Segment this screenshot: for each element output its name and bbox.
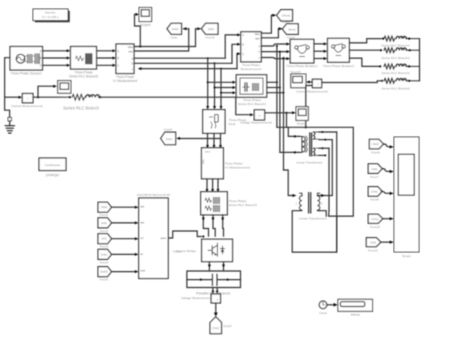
right bus joining RLC rows bbox=[419, 39, 421, 81]
scope1 bbox=[296, 107, 308, 121]
powergui block bbox=[39, 158, 66, 171]
series RLC branch4 row1 bbox=[384, 36, 420, 41]
wires from tags to scope bbox=[381, 144, 391, 242]
wires source to RLC branch5 (3 phases) bbox=[43, 51, 67, 66]
svg-text:Goto2: Goto2 bbox=[283, 20, 291, 24]
svg-text:DISCRETE REGULATOR: DISCRETE REGULATOR bbox=[137, 193, 170, 197]
secondary vertical wires bbox=[331, 140, 333, 196]
three-phase source block1 bbox=[10, 47, 43, 71]
goto tag fault timer bbox=[161, 132, 176, 145]
capacitor bbox=[212, 274, 217, 285]
current measurement1 bbox=[22, 94, 33, 103]
t1 core bbox=[309, 193, 311, 213]
svg-text:display: display bbox=[350, 313, 360, 317]
svg-text:Series RLC Branch1: Series RLC Branch1 bbox=[238, 102, 266, 106]
wires RLC branch3 to bridge bbox=[203, 215, 223, 236]
svg-text:Vabc: Vabc bbox=[128, 46, 134, 49]
wire CM2 right to row4 bbox=[322, 81, 382, 83]
wires breaker1 to breaker2 bbox=[314, 44, 324, 59]
wire Iabc from block3 to tag bbox=[134, 29, 189, 51]
from tag Iabc (top) bbox=[201, 23, 218, 34]
branch up to VI measurement1 bbox=[225, 35, 237, 69]
from tags feeding regulator bbox=[98, 202, 112, 276]
svg-text:ref: ref bbox=[141, 237, 144, 240]
voltage measurement2 bbox=[254, 110, 264, 120]
svg-text:Three-Phase Source1: Three-Phase Source1 bbox=[10, 71, 41, 75]
svg-text:Iabc: Iabc bbox=[255, 38, 260, 41]
wire Iabc block4 to goto tag B bbox=[261, 29, 278, 38]
svg-text:[Vdc]: [Vdc] bbox=[166, 137, 173, 141]
from tags feeding scope bbox=[366, 139, 383, 246]
abc bus wires from block3 to right bbox=[134, 58, 237, 68]
svg-text:From3: From3 bbox=[100, 245, 109, 249]
wire voltage measurement to Vdc goto bbox=[215, 303, 217, 313]
wire fault area to goto tag bbox=[180, 138, 221, 140]
svg-text:C: C bbox=[40, 64, 42, 67]
wire Vabc bus to scope bbox=[135, 14, 141, 46]
svg-text:Voltage Measurement2: Voltage Measurement2 bbox=[240, 121, 272, 125]
ground bbox=[5, 118, 14, 134]
svg-text:[Vinv]: [Vinv] bbox=[372, 217, 379, 221]
three-phase series RLC branch5 block2 bbox=[71, 47, 97, 70]
svg-text:Series RLC Branch2: Series RLC Branch2 bbox=[381, 56, 409, 60]
svg-text:From10: From10 bbox=[370, 225, 380, 229]
svg-text:Vabc: Vabc bbox=[255, 33, 261, 36]
annotation banner Discrete Ts bbox=[33, 9, 70, 22]
wire regulator pulses to bridge bbox=[168, 231, 201, 238]
svg-text:Continuous: Continuous bbox=[45, 163, 61, 167]
top loop wire bbox=[288, 127, 353, 216]
svg-text:Voltage Measurement: Voltage Measurement bbox=[181, 296, 211, 300]
t1 right coil bbox=[317, 193, 319, 211]
voltage measurement (dc) bbox=[211, 294, 220, 303]
svg-text:From4: From4 bbox=[100, 260, 109, 264]
three-phase series RLC branch1 (double border) bbox=[236, 75, 267, 97]
three-phase V-I measurement block3 bbox=[116, 44, 134, 74]
goto tag B bbox=[282, 24, 298, 35]
wire CM1 output to series RLC branch bbox=[33, 96, 70, 98]
three-phase breaker2 bbox=[328, 38, 350, 62]
wire left rail to ground bbox=[5, 97, 10, 119]
display block (to workspace) bbox=[338, 299, 373, 311]
series RLC branch (resistor + inductor) bbox=[72, 94, 100, 100]
discrete regulator block bbox=[139, 198, 169, 279]
svg-text:From5: From5 bbox=[100, 278, 109, 282]
svg-text:[Iab]: [Iab] bbox=[372, 167, 378, 171]
current measurement2 bbox=[312, 79, 321, 88]
svg-text:[Vrf]: [Vrf] bbox=[101, 237, 106, 241]
wires VI measurement3 to RLC branch3 bbox=[207, 179, 218, 189]
branch verticals down to transformer primary bbox=[277, 46, 284, 170]
linear transformer icon bbox=[300, 132, 319, 156]
svg-text:load: load bbox=[141, 269, 146, 272]
svg-text:Series RLC Branch3: Series RLC Branch3 bbox=[229, 203, 257, 207]
svg-text:Series RLC Branch: Series RLC Branch bbox=[63, 106, 100, 111]
goto tag A bbox=[277, 10, 293, 21]
svg-text:C: C bbox=[242, 53, 244, 56]
scope Vabc top-left bbox=[139, 8, 152, 22]
clock bbox=[319, 301, 327, 309]
DC bus / parallel RLC branch loop bbox=[187, 271, 241, 288]
svg-text:Goto4: Goto4 bbox=[164, 128, 173, 132]
wire tap up to scope2 bbox=[38, 86, 53, 97]
svg-text:[Iab]: [Iab] bbox=[208, 27, 214, 31]
wires block4 abc to breaker1 with jogs bbox=[261, 44, 286, 59]
svg-text:Scope1: Scope1 bbox=[297, 121, 308, 125]
svg-text:[Vab]: [Vab] bbox=[372, 142, 379, 146]
three-phase V-I measurement3 (rotated) bbox=[202, 148, 224, 179]
wire source N to left rail bbox=[5, 58, 10, 98]
svg-text:Three-Phase Breaker1: Three-Phase Breaker1 bbox=[286, 64, 318, 68]
svg-text:[load]: [load] bbox=[101, 270, 108, 274]
wire Vabc block4 to goto tag A bbox=[261, 15, 272, 33]
tall scope block bbox=[394, 137, 419, 252]
three-phase V-I measurement1 block4 bbox=[241, 32, 261, 62]
svg-text:From1: From1 bbox=[100, 213, 109, 217]
series RLC branch2 row2 bbox=[384, 48, 420, 53]
svg-text:Three-Phase Breaker2: Three-Phase Breaker2 bbox=[323, 64, 355, 68]
wires from tags to regulator bbox=[112, 207, 135, 271]
svg-text:From8: From8 bbox=[370, 198, 379, 202]
goto tag Vabc (top) bbox=[167, 23, 182, 34]
wires breaker2 to RLC rows bbox=[349, 39, 381, 67]
svg-text:Current Measurement1: Current Measurement1 bbox=[11, 104, 43, 108]
wires fault to VI measurement3 bbox=[208, 133, 221, 145]
transformer secondary wires bbox=[319, 132, 337, 155]
svg-text:Goto3: Goto3 bbox=[287, 35, 295, 39]
three-phase fault block bbox=[203, 110, 225, 134]
svg-text:A B C: A B C bbox=[205, 151, 211, 154]
t1 terminal wires bbox=[284, 170, 337, 252]
linear transformer1 left coil bbox=[299, 193, 301, 211]
svg-text:Series RLC Branch4: Series RLC Branch4 bbox=[381, 43, 409, 47]
RLC branch1 output jogs to verticals bbox=[267, 82, 284, 92]
svg-text:powergui: powergui bbox=[46, 173, 59, 177]
three-phase series RLC branch3 (rotated) bbox=[201, 192, 228, 215]
wire left rail into CM1 bbox=[5, 96, 19, 98]
svg-text:Series RLC Branch6: Series RLC Branch6 bbox=[381, 87, 409, 91]
svg-text:[Vld]: [Vld] bbox=[370, 241, 376, 245]
linear transformer primary leads bbox=[277, 127, 300, 152]
wire clock to display bbox=[327, 304, 334, 306]
svg-text:[Vdc]: [Vdc] bbox=[213, 326, 220, 330]
svg-text:C: C bbox=[118, 65, 120, 68]
svg-text:Linear Transformer: Linear Transformer bbox=[296, 161, 322, 165]
goto tag Vdc (house up) bbox=[210, 317, 222, 334]
svg-text:Series RLC Branch5: Series RLC Branch5 bbox=[69, 75, 98, 79]
wire vm2 to scope1 bbox=[265, 112, 292, 114]
svg-text:From2: From2 bbox=[100, 229, 109, 233]
wires bus to voltage measurement bbox=[213, 288, 217, 292]
svg-text:Scope2: Scope2 bbox=[59, 95, 70, 99]
svg-text:Discrete,: Discrete, bbox=[45, 11, 56, 15]
svg-text:Fault: Fault bbox=[229, 122, 236, 126]
svg-text:[Vab]: [Vab] bbox=[101, 205, 108, 209]
arrow into block3 c port bbox=[138, 67, 142, 70]
wire Vabc from block3 to tag bbox=[134, 29, 196, 47]
wire CM2 down to transformer loop bbox=[306, 86, 313, 128]
wire CM2 to scope5 bbox=[308, 81, 312, 83]
svg-text:Current Measurement2: Current Measurement2 bbox=[296, 90, 328, 94]
svg-text:Goto: Goto bbox=[171, 36, 178, 40]
svg-text:Pulses: Pulses bbox=[173, 250, 182, 254]
svg-text:[Vbus]: [Vbus] bbox=[282, 14, 290, 18]
three-phase breaker1 bbox=[290, 39, 314, 63]
wires bridge to DC bus bbox=[209, 262, 223, 271]
long wire series RLC branch to voltage measurement2 bbox=[100, 97, 250, 115]
svg-text:Goto5: Goto5 bbox=[223, 324, 232, 328]
series RLC branch3b row3 bbox=[384, 64, 420, 69]
svg-text:[Vdc]: [Vdc] bbox=[101, 252, 108, 256]
svg-text:pulse: pulse bbox=[160, 237, 166, 240]
svg-text:From9: From9 bbox=[206, 36, 215, 40]
svg-text:[Vdc]: [Vdc] bbox=[371, 190, 378, 194]
svg-text:V-I Measurement: V-I Measurement bbox=[113, 79, 137, 83]
svg-text:Linear Transformer1: Linear Transformer1 bbox=[299, 217, 327, 221]
scope5 bbox=[291, 74, 306, 88]
svg-text:Scope: Scope bbox=[402, 254, 411, 258]
junction dots on abc bus bbox=[207, 57, 222, 69]
svg-text:[Ibus]: [Ibus] bbox=[289, 27, 296, 31]
svg-text:V-I Measurement3: V-I Measurement3 bbox=[225, 166, 251, 170]
wires abc bus down to fault block bbox=[208, 58, 221, 106]
wires RLC branch5 to VI measurement bbox=[97, 51, 113, 66]
universal bridge (inverse bridge) bbox=[202, 239, 233, 261]
svg-text:Series RLC Branch3: Series RLC Branch3 bbox=[381, 71, 409, 75]
svg-text:From11: From11 bbox=[368, 249, 378, 253]
branch wires to three-phase series RLC branch1 bbox=[208, 82, 233, 92]
svg-text:Clock: Clock bbox=[319, 311, 327, 315]
svg-text:From7: From7 bbox=[370, 175, 379, 179]
scope2 bbox=[58, 81, 71, 94]
series RLC branch6 row4 bbox=[384, 78, 420, 83]
svg-text:Measurement1: Measurement1 bbox=[241, 67, 262, 71]
svg-text:Iabc: Iabc bbox=[128, 51, 133, 54]
svg-text:Scope5: Scope5 bbox=[290, 70, 301, 74]
svg-text:Scope4: Scope4 bbox=[140, 23, 151, 27]
svg-text:[Vab]: [Vab] bbox=[172, 27, 179, 31]
svg-text:From6: From6 bbox=[371, 150, 380, 154]
svg-text:Ts = 2e-006 s.: Ts = 2e-006 s. bbox=[42, 15, 60, 19]
svg-text:[Iab]: [Iab] bbox=[101, 221, 107, 225]
